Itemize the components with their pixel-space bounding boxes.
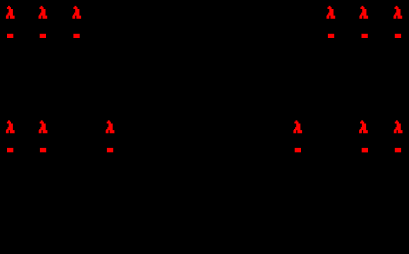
LED D9 lambda	[106, 120, 115, 133]
LED D11 bar	[362, 148, 368, 153]
LED D3 bar	[73, 34, 79, 38]
LED D2 lambda	[39, 6, 48, 19]
LED D10 lambda	[293, 120, 302, 133]
LED D1 lambda	[6, 6, 15, 19]
LED D8 lambda	[39, 120, 48, 133]
LED D11 lambda	[359, 120, 368, 133]
LED D4 bar	[328, 34, 334, 38]
LED D7 bar	[7, 148, 13, 152]
LED D2 bar	[40, 34, 46, 38]
LED D7 lambda	[6, 120, 15, 133]
LED D5 lambda	[359, 6, 368, 19]
LED D12 lambda	[394, 120, 403, 133]
LED D8 bar	[40, 148, 46, 152]
LED D6 bar	[395, 34, 401, 38]
LED D9 bar	[107, 148, 113, 152]
LED D1 bar	[7, 34, 13, 38]
LED D5 bar	[362, 34, 368, 38]
LED D12 bar	[395, 148, 401, 152]
LED D3 lambda	[72, 6, 81, 19]
LED D4 lambda	[327, 6, 336, 19]
LED D10 bar	[295, 148, 301, 152]
LED D6 lambda	[394, 6, 403, 19]
